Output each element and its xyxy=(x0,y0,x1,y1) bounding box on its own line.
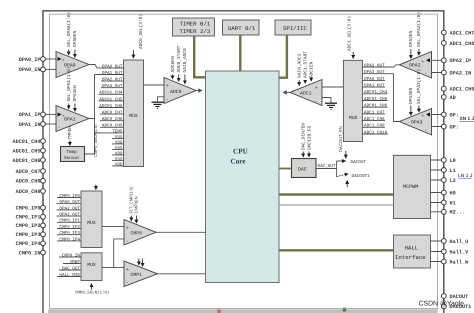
wire muxN to CMP0 minus and CMP1 plus xyxy=(102,239,126,268)
svg-text:ADC0EN: ADC0EN xyxy=(170,56,176,73)
svg-text:ADC0_CH8: ADC0_CH8 xyxy=(16,179,41,185)
svg-text:ADC01_CH6: ADC01_CH6 xyxy=(12,158,40,164)
svg-text:MUX: MUX xyxy=(87,220,96,226)
svg-text:L2: L2 xyxy=(450,178,456,184)
ground near ADC0 xyxy=(152,102,164,108)
mux rows left xyxy=(99,64,123,167)
svg-text:OPA0_IN: OPA0_IN xyxy=(19,67,41,73)
ctrl TMPEN xyxy=(68,126,73,146)
svg-text:OPA2_OUT: OPA2_OUT xyxy=(59,206,80,211)
svg-text:ADC0_SEL(3:0): ADC0_SEL(3:0) xyxy=(138,14,144,49)
block TIMER xyxy=(173,18,215,36)
svg-text:DAC_OUT: DAC_OUT xyxy=(318,164,336,169)
ctrl ADC0EN / ADC0_START / GAIN_ADC0 xyxy=(170,45,188,84)
svg-text:LN 1 J: LN 1 J xyxy=(458,173,473,179)
bus CPU to HALL xyxy=(279,249,394,251)
svg-text:ADC1_CH7: ADC1_CH7 xyxy=(450,30,474,36)
svg-text:DACOUT: DACOUT xyxy=(351,160,367,165)
svg-text:AD: AD xyxy=(450,95,456,101)
svg-text:SPI/IIC: SPI/IIC xyxy=(283,25,307,32)
mux row stubs xyxy=(99,68,124,166)
svg-text:ADC1_CH8: ADC1_CH8 xyxy=(450,41,474,47)
wire MUX to ADC0 xyxy=(144,84,167,86)
wire OPA2 out to mux row1 xyxy=(387,65,399,67)
svg-text:+: + xyxy=(126,226,129,232)
svg-text:OPA0_IP: OPA0_IP xyxy=(19,57,41,63)
svg-text:+: + xyxy=(422,113,425,118)
svg-text:ADC1_SEL(3:0): ADC1_SEL(3:0) xyxy=(347,16,353,51)
svg-text:ADC0_CH9: ADC0_CH9 xyxy=(16,189,41,195)
svg-text:CMP0EN: CMP0EN xyxy=(134,196,139,213)
svg-text:SEL_OPA2(1:0): SEL_OPA2(1:0) xyxy=(416,12,422,47)
wire ADC0 minus to ground xyxy=(158,97,165,101)
ctrl DAC labels xyxy=(301,123,313,157)
comparator CMP0 xyxy=(124,220,156,246)
svg-text:XN 1 J: XN 1 J xyxy=(460,116,474,122)
op-amp OPA0 xyxy=(56,52,89,78)
svg-text:GAIN_ADC1: GAIN_ADC1 xyxy=(297,53,303,78)
svg-text:OP:: OP: xyxy=(450,112,459,118)
wire temp sensor to mux TEMP xyxy=(85,133,111,154)
wire muxP to CMP0 plus xyxy=(102,226,126,228)
wire ADC1 minus to ground xyxy=(322,98,331,103)
svg-text:DACOUT_EN: DACOUT_EN xyxy=(338,126,343,152)
wire ADC0 out to CPU xyxy=(196,90,202,92)
svg-text:DAC_OUT: DAC_OUT xyxy=(62,266,80,271)
ctrl ADC0_SEL xyxy=(133,14,144,58)
svg-text:ADC1: ADC1 xyxy=(300,91,312,97)
wire OPA2 inputs to pins xyxy=(432,60,442,72)
svg-text:OPA2_OUT: OPA2_OUT xyxy=(102,78,123,83)
svg-text:ADC1EN: ADC1EN xyxy=(309,61,315,78)
wire ADC1 out to CPU xyxy=(283,91,290,93)
svg-text:+: + xyxy=(126,267,129,273)
svg-text:ADC1_START: ADC1_START xyxy=(303,51,309,78)
ctrl arrows CMP1 xyxy=(139,259,143,267)
svg-text:CMP0_IP1: CMP0_IP1 xyxy=(59,219,80,224)
wires HALL outputs xyxy=(431,241,442,262)
svg-text:CMP0_IP2: CMP0_IP2 xyxy=(59,225,80,230)
svg-text:ADC0: ADC0 xyxy=(170,89,182,95)
svg-text:VDD: VDD xyxy=(115,151,123,156)
svg-text:CMP0_IP0: CMP0_IP0 xyxy=(59,194,80,199)
ctrl CMP0_SELP xyxy=(93,124,98,190)
svg-text:OPA2_IP: OPA2_IP xyxy=(450,58,472,64)
svg-text:+: + xyxy=(62,113,65,118)
op-amp OPA3 xyxy=(399,109,431,136)
ctrl FLT_CMP / CMP0EN xyxy=(129,186,139,223)
wire CPU to MCPWM thin xyxy=(279,204,394,206)
svg-text:OPA1EN: OPA1EN xyxy=(72,85,78,102)
svg-text:H2...: H2... xyxy=(450,210,466,216)
mux CMP0 P-side MUX xyxy=(81,191,102,248)
svg-text:ADC1_CH7: ADC1_CH7 xyxy=(364,110,385,115)
block SPI/IIC xyxy=(275,20,311,35)
ground near ADC1 xyxy=(325,103,337,109)
svg-text:SEL_OPA0(1:0): SEL_OPA0(1:0) xyxy=(66,12,72,47)
svg-text:DAC12B_FS: DAC12B_FS xyxy=(306,125,312,150)
svg-text:TMPEN: TMPEN xyxy=(68,126,73,140)
svg-text:ADC01_CH6: ADC01_CH6 xyxy=(364,104,388,109)
svg-text:ADC0_CH8: ADC0_CH8 xyxy=(102,117,123,122)
svg-text:MUX: MUX xyxy=(87,262,96,268)
svg-text:Interface: Interface xyxy=(395,254,426,261)
svg-text:Temp: Temp xyxy=(66,150,77,155)
svg-text:OPA3_OUT: OPA3_OUT xyxy=(102,84,123,89)
svg-text:OPA1_OUT: OPA1_OUT xyxy=(59,213,80,218)
mux rows right xyxy=(364,63,388,135)
comparator CMP1 xyxy=(124,261,158,287)
ctrl SEL_OPA0 xyxy=(66,12,78,57)
svg-text:GAIN_ADC0: GAIN_ADC0 xyxy=(182,48,188,73)
cpu core xyxy=(206,71,280,283)
wire OPA3 inputs to pins xyxy=(432,115,442,127)
svg-text:OPA1_IN: OPA1_IN xyxy=(19,122,41,128)
bottom gray bar xyxy=(48,309,438,313)
op-amp OPA1 xyxy=(56,106,89,132)
svg-text:ADC1_CH8: ADC1_CH8 xyxy=(364,117,385,122)
svg-text:OP:: OP: xyxy=(450,124,459,130)
svg-text:CMP0: CMP0 xyxy=(131,230,143,236)
mux CMP0 N-side MUX xyxy=(81,253,102,281)
svg-text:OPA2: OPA2 xyxy=(409,63,421,69)
svg-text:CMP0_SELN(1:0): CMP0_SELN(1:0) xyxy=(75,291,109,296)
svg-text:HALL_MID: HALL_MID xyxy=(59,273,80,278)
svg-text:CMP1: CMP1 xyxy=(131,272,143,278)
svg-text:CMP0_IN: CMP0_IN xyxy=(62,253,80,258)
svg-text:ADC0_START: ADC0_START xyxy=(176,45,182,72)
svg-text:Hall_W: Hall_W xyxy=(450,259,470,265)
svg-text:SEL_OPA1(1:0): SEL_OPA1(1:0) xyxy=(66,66,72,101)
svg-text:DACOUT1: DACOUT1 xyxy=(352,174,370,179)
svg-text:ADC0_CH7: ADC0_CH7 xyxy=(102,111,123,116)
wire CMP1 out to CPU xyxy=(158,273,206,275)
svg-text:VDD: VDD xyxy=(115,140,123,145)
svg-text:CMP0_IP4: CMP0_IP4 xyxy=(59,237,80,242)
svg-text:VSS: VSS xyxy=(115,157,123,162)
svg-text:MUX: MUX xyxy=(129,113,138,119)
svg-text:CMP0_IP4: CMP0_IP4 xyxy=(16,241,41,247)
svg-text:UART 0/1: UART 0/1 xyxy=(228,25,256,32)
ctrl CMP0_SELN xyxy=(75,284,109,296)
svg-text:MUX: MUX xyxy=(349,115,358,121)
svg-text:MCPWM: MCPWM xyxy=(403,184,418,190)
svg-text:VDD: VDD xyxy=(115,162,123,167)
svg-text:OPA1_IP: OPA1_IP xyxy=(19,112,41,118)
adc ADC0 xyxy=(164,78,196,104)
svg-text:DAC_DIN/EN: DAC_DIN/EN xyxy=(301,123,307,150)
svg-text:ADC1_CH9: ADC1_CH9 xyxy=(364,124,385,129)
svg-text:OPA2_OUT: OPA2_OUT xyxy=(364,63,385,68)
svg-text:CMP0_IP3: CMP0_IP3 xyxy=(16,232,41,238)
ctrl OPA3EN / SEL_OPA3 xyxy=(408,69,422,115)
svg-text:+: + xyxy=(315,86,318,92)
svg-text:DAC: DAC xyxy=(298,167,307,173)
svg-text:Core: Core xyxy=(231,158,246,166)
block UART xyxy=(223,20,260,35)
svg-text:HALL: HALL xyxy=(405,245,419,252)
wire OPA0 out to mux row1 xyxy=(89,65,124,68)
wire OPA1 out to mux row2 xyxy=(89,75,99,155)
svg-text:SEL_OPA3(1:0): SEL_OPA3(1:0) xyxy=(416,69,422,104)
left pin circles xyxy=(41,57,46,255)
svg-text:ADC01_CH4: ADC01_CH4 xyxy=(99,91,123,96)
svg-text:CMP0_IP3: CMP0_IP3 xyxy=(59,231,80,236)
right pin labels xyxy=(450,30,474,310)
right pin circles xyxy=(441,30,446,309)
svg-text:DACOUT: DACOUT xyxy=(450,294,469,300)
svg-text:Hall_V: Hall_V xyxy=(450,249,470,255)
svg-text:L0: L0 xyxy=(450,158,456,164)
wire OPA0 inputs xyxy=(45,58,58,60)
wire ADC1 plus from MUX xyxy=(322,86,343,88)
svg-text:ADC01_CH5: ADC01_CH5 xyxy=(364,97,388,102)
bus TIMER to CPU xyxy=(193,36,206,77)
mux ADC1 input MUX xyxy=(343,60,362,141)
op-amp OPA2 xyxy=(399,52,431,79)
svg-text:VSS: VSS xyxy=(115,135,123,140)
adc ADC1 xyxy=(290,80,322,106)
svg-text:TIMER 0/1: TIMER 0/1 xyxy=(180,21,211,28)
svg-text:OPA0EN: OPA0EN xyxy=(72,30,78,47)
svg-text:OPA1_OUT: OPA1_OUT xyxy=(102,71,123,76)
ctrl OPA2EN / SEL_OPA2 xyxy=(408,12,422,59)
svg-text:Hall_U: Hall_U xyxy=(450,239,469,245)
svg-text:CPU: CPU xyxy=(233,148,249,156)
svg-text:OPA0_OUT: OPA0_OUT xyxy=(59,200,80,205)
svg-text:L1: L1 xyxy=(450,168,456,174)
ctrl SEL_OPA1 xyxy=(66,66,78,111)
inner frame xyxy=(50,14,438,308)
hall interface block xyxy=(394,235,431,268)
cmp mux N rows xyxy=(59,253,80,278)
switch DACOUT demux xyxy=(337,126,370,187)
svg-text:ADC1_CH9: ADC1_CH9 xyxy=(450,87,474,93)
green tick on bar xyxy=(343,308,346,312)
svg-text:+: + xyxy=(62,58,65,63)
bus SPI to CPU xyxy=(279,35,288,78)
svg-text:CMP0_IN: CMP0_IN xyxy=(19,250,41,256)
svg-text:OPA1_OUT: OPA1_OUT xyxy=(364,84,385,89)
wire CPU to DAC xyxy=(279,168,292,170)
svg-text:ADC01_CH5: ADC01_CH5 xyxy=(99,97,123,102)
svg-text:+: + xyxy=(422,59,425,64)
svg-text:OPA2_IN: OPA2_IN xyxy=(450,70,472,76)
mux ADC0 input MUX xyxy=(124,60,144,167)
svg-text:CMP0_IP2: CMP0_IP2 xyxy=(16,223,41,229)
wire OPA3 out to mux row2 xyxy=(386,74,399,122)
wire CMP0 out to CPU xyxy=(156,231,206,233)
svg-text:CMP0_IP0: CMP0_IP0 xyxy=(16,206,41,212)
svg-text:Sensor: Sensor xyxy=(64,156,80,161)
svg-text:OPA0_OUT: OPA0_OUT xyxy=(102,64,123,69)
svg-text:OPA2EN: OPA2EN xyxy=(408,30,414,47)
block Temp Sensor xyxy=(61,147,85,162)
svg-text:VREF: VREF xyxy=(70,260,81,265)
wire OPA1 inputs xyxy=(45,113,58,115)
svg-text:ADC1_CH10: ADC1_CH10 xyxy=(364,130,388,135)
svg-text:OPA1: OPA1 xyxy=(64,117,76,123)
dac DAC block xyxy=(292,159,317,178)
svg-text:H0: H0 xyxy=(450,190,456,196)
svg-text:ADC01_CH5: ADC01_CH5 xyxy=(12,148,40,154)
bus CPU to MCPWM xyxy=(279,193,394,195)
svg-text:OPA3EN: OPA3EN xyxy=(408,87,414,104)
svg-text:+: + xyxy=(166,83,169,89)
svg-text:H1: H1 xyxy=(450,200,456,206)
wires MCPWM outputs xyxy=(431,160,442,212)
svg-text:ADC0_CH7: ADC0_CH7 xyxy=(16,169,41,175)
svg-text:TIMER 2/3: TIMER 2/3 xyxy=(180,28,211,35)
ctrl GAIN_ADC1 / ADC1_START / ADC1EN xyxy=(297,51,315,86)
svg-text:ADC0_CH9: ADC0_CH9 xyxy=(102,124,123,129)
ctrl ADC1_SEL xyxy=(347,16,354,58)
svg-text:CMP0_SELP(1:0): CMP0_SELP(1:0) xyxy=(93,124,98,157)
bus UART to CPU xyxy=(239,35,241,71)
svg-text:CMP0_IP1: CMP0_IP1 xyxy=(16,215,41,221)
svg-text:OPA0_OUT: OPA0_OUT xyxy=(364,77,385,82)
svg-text:ADC01_CH6: ADC01_CH6 xyxy=(99,104,123,109)
left pin labels xyxy=(12,57,40,256)
svg-text:CSDN @Yaqle: CSDN @Yaqle xyxy=(419,301,465,308)
svg-text:ADC01_CH4: ADC01_CH4 xyxy=(364,90,388,95)
svg-text:OPA3_OUT: OPA3_OUT xyxy=(364,70,385,75)
red tick on bar xyxy=(218,309,221,313)
cmp mux P rows xyxy=(59,194,80,242)
wire DAC_OUT xyxy=(316,168,337,170)
svg-text:OPA3: OPA3 xyxy=(411,119,423,125)
mcpwm block xyxy=(394,155,431,218)
svg-text:ADC01_CH4: ADC01_CH4 xyxy=(12,139,40,145)
svg-text:VSS: VSS xyxy=(115,146,123,151)
svg-text:TEMP: TEMP xyxy=(112,129,123,134)
